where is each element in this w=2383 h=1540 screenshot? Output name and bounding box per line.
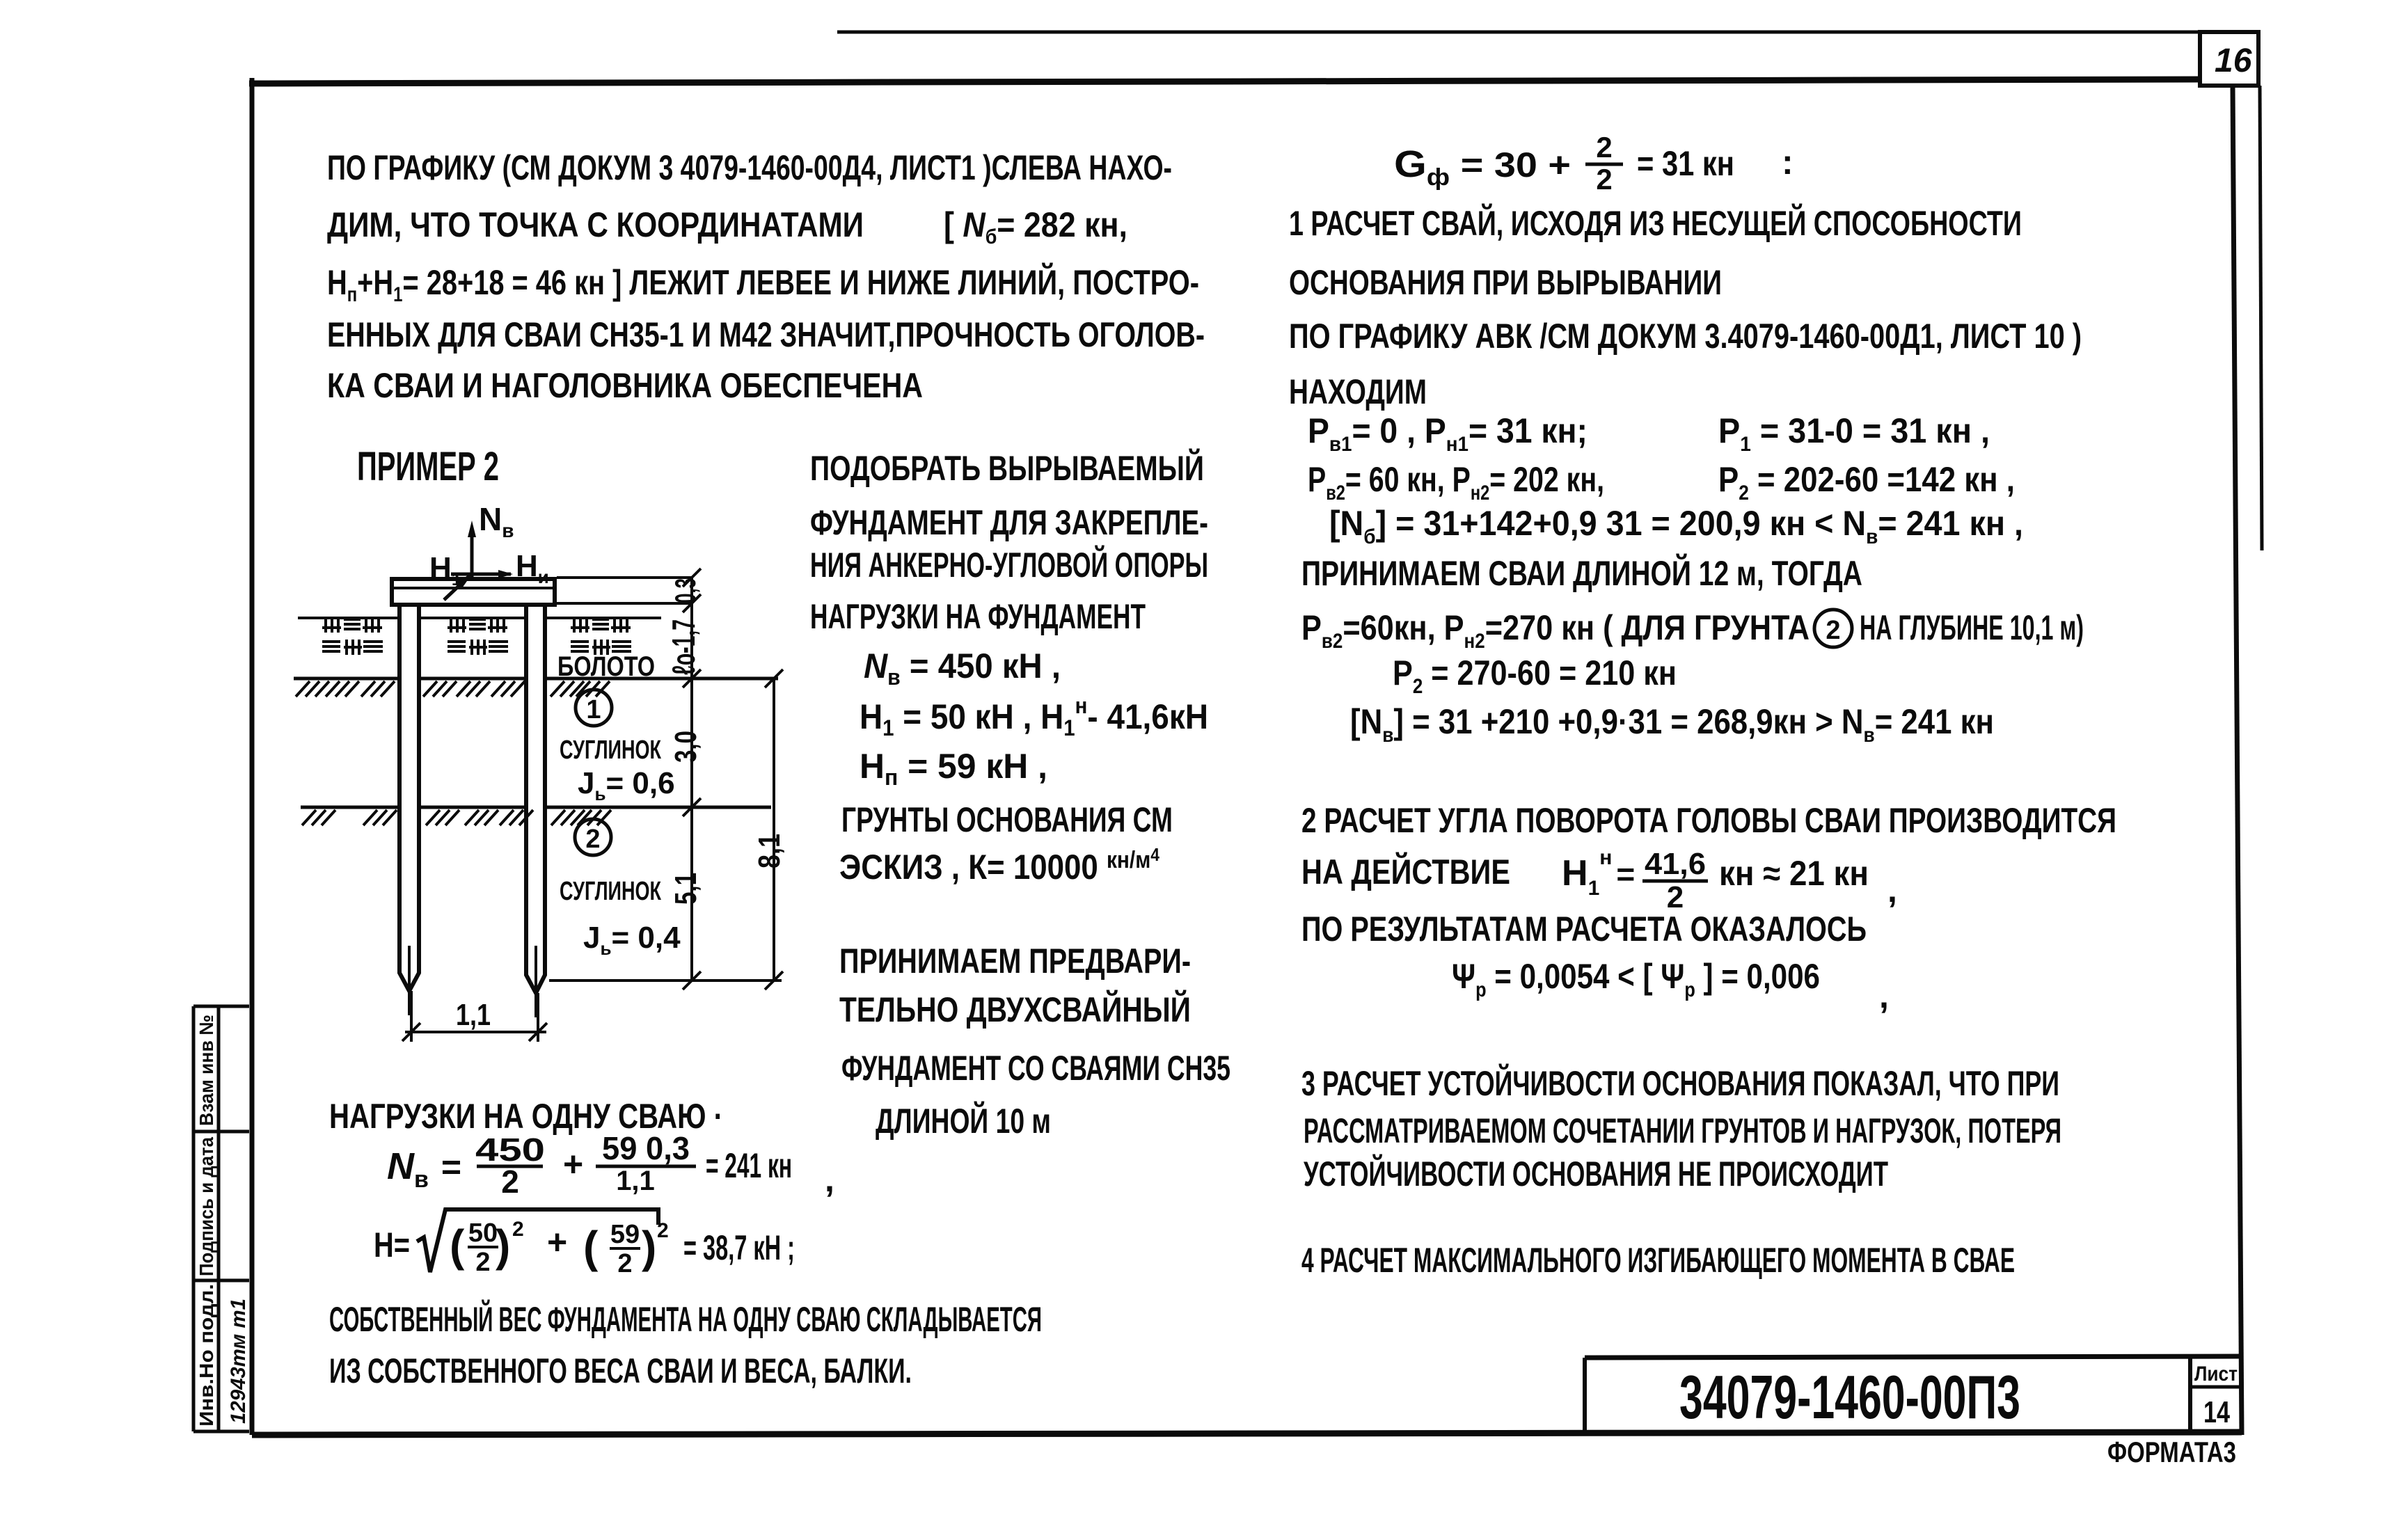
svg-text:= 241 кн: = 241 кн bbox=[706, 1146, 792, 1185]
svg-text:2 РАСЧЕТ УГЛА ПОВОРОТА ГОЛОВЫ: 2 РАСЧЕТ УГЛА ПОВОРОТА ГОЛОВЫ СВАИ ПРОИЗ… bbox=[1301, 801, 2116, 840]
load Nv arrowhead bbox=[468, 521, 476, 537]
svg-text:P1 = 31-0 = 31 кн ,: P1 = 31-0 = 31 кн , bbox=[1718, 411, 1990, 456]
svg-text:1: 1 bbox=[586, 695, 601, 724]
svg-text:ПО ГРАФИКУ (СМ ДОКУМ 3 4079-14: ПО ГРАФИКУ (СМ ДОКУМ 3 4079-1460-00Д4, Л… bbox=[327, 148, 1172, 187]
layer 2 line middle segment bbox=[419, 806, 526, 809]
svg-text:2: 2 bbox=[1596, 163, 1612, 196]
svg-text:Gф= 30 +: Gф= 30 + bbox=[1394, 143, 1571, 191]
dim extension cap bottom bbox=[557, 602, 692, 605]
stamp cell divider 1 bbox=[193, 1130, 249, 1134]
ground line top right segment bbox=[545, 617, 661, 619]
svg-text:2: 2 bbox=[475, 1248, 490, 1277]
hatches below layer 2 bbox=[302, 810, 611, 825]
marsh symbol right bbox=[571, 619, 631, 655]
svg-text:СУГЛИНОК: СУГЛИНОК bbox=[560, 877, 662, 906]
svg-text:Ψр = 0,0054 < [ Ψр ] = 0,006: Ψр = 0,0054 < [ Ψр ] = 0,006 bbox=[1452, 957, 1820, 1001]
right pile outline bbox=[526, 605, 545, 993]
svg-text:Pв2=60кн, Pн2=270 кн ( ДЛЯ ГР: Pв2=60кн, Pн2=270 кн ( ДЛЯ ГРУНТА bbox=[1301, 608, 1810, 653]
svg-text:НАХОДИМ: НАХОДИМ bbox=[1289, 372, 1427, 411]
svg-text:УСТОЙЧИВОСТИ ОСНОВАНИЯ НЕ П: УСТОЙЧИВОСТИ ОСНОВАНИЯ НЕ ПРОИСХОДИТ bbox=[1304, 1154, 1888, 1193]
svg-text:4 РАСЧЕТ МАКСИМАЛЬНОГО ИЗГИБАЮ: 4 РАСЧЕТ МАКСИМАЛЬНОГО ИЗГИБАЮЩЕГО МОМЕН… bbox=[1301, 1241, 2015, 1280]
stamp cell top bbox=[193, 1005, 249, 1008]
left pile outline bbox=[399, 605, 419, 991]
svg-text:50: 50 bbox=[468, 1218, 498, 1248]
svg-text:2: 2 bbox=[657, 1219, 669, 1242]
svg-text:ФУНДАМЕНТ ДЛЯ ЗАКРЕПЛЕ-: ФУНДАМЕНТ ДЛЯ ЗАКРЕПЛЕ- bbox=[810, 503, 1208, 542]
frame bottom bbox=[252, 1432, 2242, 1435]
H fraction 2 bar bbox=[610, 1247, 640, 1250]
svg-text:(: ( bbox=[450, 1221, 465, 1271]
marsh symbol left bbox=[322, 619, 383, 655]
page number box bbox=[2200, 32, 2258, 86]
svg-text:+: + bbox=[563, 1145, 583, 1184]
svg-text:2: 2 bbox=[1596, 131, 1612, 164]
svg-text:1,1: 1,1 bbox=[456, 998, 491, 1032]
svg-text:ПРИНИМАЕМ ПРЕДВАРИ-: ПРИНИМАЕМ ПРЕДВАРИ- bbox=[839, 942, 1191, 981]
svg-text:): ) bbox=[642, 1222, 656, 1272]
svg-text:): ) bbox=[496, 1221, 510, 1271]
svg-text:Hп+H1= 28+18 = 46 кн ] ЛЕЖИТ Л: Hп+H1= 28+18 = 46 кн ] ЛЕЖИТ ЛЕВЕЕ И НИЖ… bbox=[327, 262, 1199, 306]
Nv fraction 1 bar bbox=[477, 1165, 543, 1168]
svg-text:,: , bbox=[1879, 976, 1889, 1015]
pile spacing ext left bbox=[410, 991, 413, 1042]
Gf fraction bar bbox=[1585, 163, 1623, 166]
pile cap inner line bbox=[392, 587, 555, 589]
svg-text:НИЯ АНКЕРНО-УГЛОВОЙ ОПОРЫ: НИЯ АНКЕРНО-УГЛОВОЙ ОПОРЫ bbox=[810, 545, 1208, 585]
svg-text:[Nв] = 31 +210 +0,9·31 = 268,: [Nв] = 31 +210 +0,9·31 = 268,9кн > Nв= 2… bbox=[1350, 702, 1994, 747]
svg-text:Nв: Nв bbox=[479, 501, 514, 541]
svg-text:41,6: 41,6 bbox=[1645, 847, 1706, 881]
ground line top left segment bbox=[298, 617, 399, 619]
svg-text:Nв=: Nв= bbox=[387, 1145, 461, 1193]
svg-text:ДИМ, ЧТО ТОЧКА С КООРДИНАТАМИ: ДИМ, ЧТО ТОЧКА С КООРДИНАТАМИ bbox=[327, 205, 864, 244]
svg-text:59: 59 bbox=[610, 1220, 640, 1249]
svg-text:2: 2 bbox=[617, 1249, 632, 1278]
marsh symbol middle bbox=[448, 619, 508, 655]
frame top bbox=[249, 79, 2200, 84]
svg-text:ℓо-1,7: ℓо-1,7 bbox=[665, 619, 702, 675]
svg-text:[Nб] = 31+142+0,9 31 = 200,9 к: [Nб] = 31+142+0,9 31 = 200,9 кн < Nв= 24… bbox=[1329, 504, 2023, 548]
dim line A bbox=[690, 576, 693, 981]
svg-text:[ Nб= 282 кн,: [ Nб= 282 кн, bbox=[944, 205, 1127, 248]
soil circle 2 bbox=[575, 819, 611, 855]
svg-text:P2 = 270-60 = 210 кн: P2 = 270-60 = 210 кн bbox=[1393, 653, 1677, 698]
svg-text:14: 14 bbox=[2203, 1395, 2230, 1429]
svg-text:= 38,7 кH ;: = 38,7 кH ; bbox=[683, 1228, 795, 1267]
svg-text:ПО РЕЗУЛЬТАТАМ РАСЧЕТА ОКАЗАЛО: ПО РЕЗУЛЬТАТАМ РАСЧЕТА ОКАЗАЛОСЬ bbox=[1301, 910, 1867, 948]
svg-text:5,1: 5,1 bbox=[669, 873, 703, 905]
layer 2 line right segment bbox=[545, 806, 771, 809]
water table line right segment bbox=[545, 677, 778, 681]
svg-text:34079-1460-00П3: 34079-1460-00П3 bbox=[1679, 1363, 2020, 1431]
svg-text:ПРИНИМАЕМ СВАИ ДЛИНОЙ 12 м, Т: ПРИНИМАЕМ СВАИ ДЛИНОЙ 12 м, ТОГДА bbox=[1301, 553, 1862, 593]
svg-text:Pв2= 60 кн, Pн2= 202 кн,: Pв2= 60 кн, Pн2= 202 кн, bbox=[1308, 460, 1604, 505]
svg-text:ФУНДАМЕНТ СО СВАЯМИ СН35: ФУНДАМЕНТ СО СВАЯМИ СН35 bbox=[841, 1049, 1230, 1088]
svg-text:2: 2 bbox=[585, 825, 600, 854]
section 2 fraction bar bbox=[1642, 880, 1708, 883]
svg-text:Јь= 0,4: Јь= 0,4 bbox=[583, 921, 681, 959]
svg-text:0,3: 0,3 bbox=[669, 578, 702, 603]
load Nv arrow bbox=[470, 532, 474, 580]
H fraction 1 bar bbox=[468, 1246, 498, 1248]
H radical sign bbox=[417, 1209, 658, 1272]
svg-text:,: , bbox=[825, 1160, 834, 1199]
svg-text:НА ГЛУБИНЕ 10,1 м): НА ГЛУБИНЕ 10,1 м) bbox=[1860, 608, 2084, 647]
svg-text:(: ( bbox=[583, 1222, 599, 1272]
ground circle 2 inline bbox=[1814, 610, 1852, 647]
svg-text:СУГЛИНОК: СУГЛИНОК bbox=[560, 736, 662, 765]
svg-text:2: 2 bbox=[1826, 616, 1840, 645]
svg-text::: : bbox=[1782, 143, 1794, 182]
left pile center tick bbox=[408, 946, 411, 1015]
right pile center tick bbox=[535, 946, 537, 1017]
svg-text:59 0,3: 59 0,3 bbox=[602, 1130, 690, 1166]
svg-text:8,1: 8,1 bbox=[752, 834, 786, 868]
svg-text:+: + bbox=[547, 1223, 567, 1262]
load H arrow bbox=[451, 573, 511, 576]
svg-text:3 РАСЧЕТ УСТОЙЧИВОСТИ ОСНОВАНИ: 3 РАСЧЕТ УСТОЙЧИВОСТИ ОСНОВАНИЯ ПОКАЗАЛ,… bbox=[1301, 1063, 2059, 1103]
svg-text:НА ДЕЙСТВИЕ: НА ДЕЙСТВИЕ bbox=[1301, 852, 1510, 891]
svg-text:КА СВАИ И НАГОЛОВНИКА ОБЕСПЕЧЕ: КА СВАИ И НАГОЛОВНИКА ОБЕСПЕЧЕНА bbox=[327, 366, 923, 405]
svg-text:Подпись и дата: Подпись и дата bbox=[196, 1137, 217, 1276]
svg-text:НАГРУЗКИ НА ФУНДАМЕНТ: НАГРУЗКИ НА ФУНДАМЕНТ bbox=[810, 597, 1146, 636]
svg-text:ТЕЛЬНО ДВУХСВАЙНЫЙ: ТЕЛЬНО ДВУХСВАЙНЫЙ bbox=[839, 990, 1191, 1029]
frame left bbox=[250, 78, 255, 1435]
svg-text:Јь= 0,6: Јь= 0,6 bbox=[578, 766, 675, 804]
water table line left segment bbox=[294, 677, 399, 681]
frame right inner bbox=[2233, 86, 2242, 1435]
svg-text:Взам инв №: Взам инв № bbox=[196, 1015, 217, 1126]
svg-text:ИЗ СОБСТВЕННОГО ВЕСА СВАИ И В: ИЗ СОБСТВЕННОГО ВЕСА СВАИ И ВЕСА, БАЛКИ. bbox=[329, 1351, 912, 1390]
svg-text:H1 = 50 кН , H1н- 41,6кН: H1 = 50 кН , H1н- 41,6кН bbox=[860, 693, 1208, 740]
svg-text:СОБСТВЕННЫЙ ВЕС ФУНДАМЕНТА НА: СОБСТВЕННЫЙ ВЕС ФУНДАМЕНТА НА ОДНУ СВАЮ … bbox=[329, 1299, 1042, 1339]
hatches below water table bbox=[296, 681, 610, 697]
water table line middle segment bbox=[419, 677, 526, 681]
svg-text:ПРИМЕР 2: ПРИМЕР 2 bbox=[357, 444, 499, 489]
Nv fraction 2 bar bbox=[596, 1165, 696, 1168]
stamp cell divider 2 bbox=[193, 1279, 249, 1283]
svg-text:1,1: 1,1 bbox=[616, 1166, 655, 1196]
svg-text:РАССМАТРИВАЕМОМ СОЧЕТАНИИ ГРУН: РАССМАТРИВАЕМОМ СОЧЕТАНИИ ГРУНТОВ И НАГР… bbox=[1304, 1111, 2061, 1150]
svg-text:H1: H1 bbox=[429, 551, 461, 589]
stamp column outer left bbox=[192, 1006, 196, 1431]
svg-text:ФОРМАТА3: ФОРМАТА3 bbox=[2107, 1436, 2236, 1468]
svg-text:ГРУНТЫ ОСНОВАНИЯ СМ: ГРУНТЫ ОСНОВАНИЯ СМ bbox=[841, 800, 1173, 839]
top ruled line bbox=[837, 31, 2200, 34]
frame right outer bbox=[2260, 86, 2262, 550]
title block left bbox=[1583, 1358, 1587, 1435]
svg-text:12943тм т1: 12943тм т1 bbox=[227, 1299, 250, 1424]
title block top bbox=[1585, 1356, 2242, 1358]
svg-text:кн ≈ 21 кн: кн ≈ 21 кн bbox=[1719, 854, 1869, 893]
svg-text:Инв.Но подл.: Инв.Но подл. bbox=[196, 1284, 217, 1427]
pile spacing ticks bbox=[402, 1023, 547, 1041]
stamp column divider vertical bbox=[217, 1006, 221, 1431]
svg-text:ДЛИНОЙ 10 м: ДЛИНОЙ 10 м bbox=[876, 1101, 1051, 1141]
layer 2 line left segment bbox=[301, 806, 399, 809]
svg-text:= 31 кн: = 31 кн bbox=[1637, 144, 1734, 183]
pile spacing dim line bbox=[405, 1031, 546, 1033]
svg-text:3,0: 3,0 bbox=[669, 731, 703, 763]
resultant arrowhead bbox=[456, 574, 472, 588]
svg-text:ПОДОБРАТЬ ВЫРЫВАЕМЫЙ: ПОДОБРАТЬ ВЫРЫВАЕМЫЙ bbox=[810, 448, 1204, 488]
svg-text:Hи: Hи bbox=[516, 549, 549, 587]
svg-text:2: 2 bbox=[512, 1218, 524, 1241]
svg-text:ПО ГРАФИКУ АВК /СМ ДОКУМ 3.4: ПО ГРАФИКУ АВК /СМ ДОКУМ 3.4079-1460-00Д… bbox=[1289, 317, 2082, 356]
svg-text:2: 2 bbox=[501, 1164, 519, 1200]
resultant arrow bbox=[444, 576, 469, 600]
svg-text:16: 16 bbox=[2215, 42, 2252, 79]
svg-text:H1н=: H1н= bbox=[1562, 846, 1635, 900]
svg-text:450: 450 bbox=[475, 1132, 545, 1168]
pile cap outline bbox=[392, 579, 555, 605]
pile spacing ext right bbox=[537, 993, 539, 1042]
ground line top middle segment bbox=[419, 617, 526, 619]
svg-text:P2 = 202-60 =142 кн ,: P2 = 202-60 =142 кн , bbox=[1718, 460, 2015, 505]
stamp cell bottom bbox=[193, 1430, 249, 1434]
svg-text:,: , bbox=[1887, 871, 1897, 910]
title block list cell vertical bbox=[2188, 1358, 2192, 1434]
svg-text:Лист: Лист bbox=[2194, 1363, 2238, 1386]
soil circle 1 bbox=[576, 690, 612, 726]
dim line A ticks bbox=[683, 569, 701, 990]
dim line B bbox=[773, 678, 775, 981]
title block list cell divider bbox=[2190, 1386, 2242, 1389]
dim bottom extension bbox=[549, 979, 782, 982]
svg-text:ЕННЫХ ДЛЯ СВАИ СН35-1 И М42 З: ЕННЫХ ДЛЯ СВАИ СН35-1 И М42 ЗНАЧИТ,ПРОЧН… bbox=[327, 315, 1205, 354]
svg-text:Hп = 59 кН ,: Hп = 59 кН , bbox=[860, 747, 1047, 790]
svg-text:1 РАСЧЕТ СВАЙ, ИСХОДЯ ИЗ НЕСУЩ: 1 РАСЧЕТ СВАЙ, ИСХОДЯ ИЗ НЕСУЩЕЙ СПОСОБН… bbox=[1289, 203, 2022, 243]
svg-text:ОСНОВАНИЯ ПРИ ВЫРЫВАНИИ: ОСНОВАНИЯ ПРИ ВЫРЫВАНИИ bbox=[1289, 263, 1722, 302]
svg-text:Nв = 450 кН ,: Nв = 450 кН , bbox=[864, 646, 1061, 690]
svg-text:Pв1= 0 , Pн1= 31 кн;: Pв1= 0 , Pн1= 31 кн; bbox=[1308, 411, 1588, 456]
svg-text:H=: H= bbox=[374, 1225, 410, 1264]
svg-text:ЭСКИЗ , К= 10000 кн/м4: ЭСКИЗ , К= 10000 кн/м4 bbox=[839, 844, 1159, 887]
dim line B ticks bbox=[765, 669, 783, 990]
load H arrowhead bbox=[498, 570, 513, 578]
dim extension cap top bbox=[557, 576, 692, 579]
